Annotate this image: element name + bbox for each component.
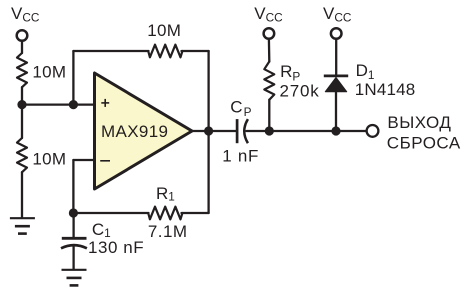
junction node A dot [17,100,26,109]
capacitor C1 130nF [61,238,87,248]
power terminal VCC3 [331,28,342,39]
ground left [10,218,35,233]
wire node A to lower resistor [21,105,23,138]
diode D1 1N4148 [324,76,348,92]
svg-text:7.1M: 7.1M [148,222,188,241]
svg-text:VCC: VCC [323,4,352,25]
svg-text:10M: 10M [32,62,66,81]
junction node D dot [204,126,213,135]
wire node A to node B [22,103,73,105]
wire node F to output terminal [336,130,366,132]
svg-text:10M: 10M [147,21,181,40]
ground under C1 [62,270,87,286]
wire R lower to ground [21,172,23,218]
svg-text:270k: 270k [280,82,320,101]
svg-text:D1: D1 [356,61,375,82]
output terminal circle [367,125,379,137]
junction node B dot [69,100,78,109]
op-amp plus sign [101,99,109,107]
wire node C down to C1 [72,213,74,237]
svg-text:1N4148: 1N4148 [355,80,416,99]
wire CP to node E [247,130,270,132]
wire feedback top left segment [73,50,148,52]
svg-text:10M: 10M [32,150,66,169]
junction node F dot [331,126,340,135]
svg-text:130 nF: 130 nF [88,238,144,257]
wire VCC3 to diode cathode [335,39,337,75]
resistor R1 7.1M [148,207,182,220]
wire node D to capacitor CP [209,130,236,132]
wire R1 to output vertical [182,212,209,214]
svg-text:VCC: VCC [254,4,283,25]
wire minus input down to node C [72,160,74,213]
svg-text:MAX919: MAX919 [101,122,168,141]
svg-text:СБРОСА: СБРОСА [387,134,461,153]
wire VCC1 to R divider top [21,41,23,53]
resistor 10M lower (divider) [17,138,27,172]
op-amp minus sign [100,160,110,162]
svg-text:R1: R1 [156,184,175,204]
resistor 10M upper (divider) [17,53,27,87]
svg-text:ВЫХОД: ВЫХОД [387,113,451,132]
junction node E dot [265,126,274,135]
svg-text:RP: RP [280,62,300,83]
power terminal VCC1 [17,30,28,41]
wire feedback right vertical to output node [207,51,209,131]
capacitor CP 1nF [237,119,248,143]
resistor RP 270k [264,62,274,100]
svg-text:CP: CP [230,98,251,119]
svg-text:1 nF: 1 nF [222,147,259,166]
wire output node down to R1 [207,131,209,213]
wire VCC2 to RP [268,39,271,62]
svg-text:C1: C1 [92,220,111,240]
wire node E to node F [269,130,336,132]
wire C1 to ground [72,246,74,269]
resistor 10M feedback [148,45,182,58]
wire RP to node E [268,100,270,131]
wire node B up to feedback row [72,51,74,105]
power terminal VCC2 [264,28,275,39]
wire node B to op-amp + input [73,103,94,105]
wire node C to R1 [73,212,148,214]
op-amp U1 MAX919 [95,73,193,189]
svg-text:VCC: VCC [11,4,40,25]
wire op-amp minus input stub [73,159,94,161]
wire op-amp output to node D [191,130,209,132]
junction node C dot [69,208,78,217]
wire feedback top right segment [182,50,209,52]
wire R upper to node A [21,87,23,104]
wire diode anode to node F [335,92,337,131]
